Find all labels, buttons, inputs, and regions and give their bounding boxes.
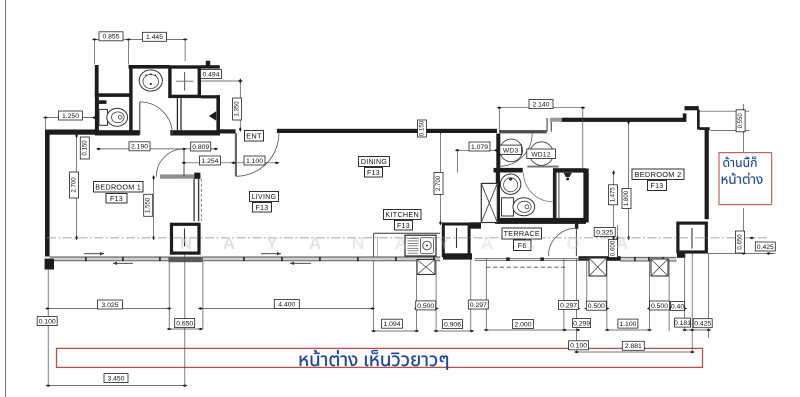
dimension 1.550 — [144, 194, 153, 216]
dim line 0.494 — [201, 80, 243, 83]
label TERRACE — [502, 228, 542, 239]
wall bath2 top right segment — [553, 168, 586, 172]
label WD3 — [500, 145, 522, 154]
dimension 0.325 — [594, 227, 615, 236]
wall closet bottom — [95, 93, 133, 97]
dimension 1.250 — [59, 111, 83, 120]
label BEDROOM2 F13 — [648, 181, 667, 191]
dim ext 0.855 left — [94, 41, 96, 65]
svg-text:2.190: 2.190 — [131, 144, 148, 151]
wall bedroom1 header end block — [194, 173, 200, 179]
dimension 1.475 — [609, 185, 618, 205]
wall closet left vertical — [95, 65, 99, 98]
terrace top-left corner wall — [470, 222, 481, 228]
svg-text:F13: F13 — [397, 223, 410, 230]
svg-text:3.450: 3.450 — [107, 376, 124, 383]
watermark letters — [180, 234, 628, 253]
kitchen sink unit — [405, 235, 436, 256]
svg-text:0.100: 0.100 — [570, 343, 587, 350]
door bedroom1 leaf — [183, 149, 185, 177]
slide arrow bedroom1 right — [84, 252, 104, 255]
door bath2 arc — [524, 173, 553, 202]
svg-text:WD3: WD3 — [503, 147, 519, 154]
wall bath2 left vertical — [496, 173, 500, 223]
dim line right 0.425 row — [708, 252, 776, 255]
wall tab below closet — [99, 100, 107, 104]
svg-text:2.700: 2.700 — [71, 177, 78, 193]
dimension 0.500 — [416, 301, 436, 310]
door entry arc — [236, 133, 279, 176]
wall bedroom1 top — [45, 130, 95, 135]
svg-text:0.150: 0.150 — [419, 120, 426, 136]
wall horizontal below 0.494 — [201, 95, 220, 98]
shower2 head symbol — [564, 173, 572, 181]
dim line 0.855/1.445 — [92, 38, 188, 41]
wall bedroom2 bottom solid — [579, 256, 621, 261]
svg-text:1.079: 1.079 — [471, 144, 488, 151]
wall bedroom1/living partition — [193, 179, 199, 221]
svg-text:0.500: 0.500 — [651, 303, 668, 310]
dim ext terrace c — [563, 259, 565, 331]
label BEDROOM 2 — [632, 169, 684, 180]
door bedroom1 arc — [156, 149, 184, 177]
dimension 1.100 — [618, 319, 638, 328]
dim ext bd2 b — [606, 261, 608, 331]
dimension 0.494 — [201, 70, 222, 79]
label KITCHEN F13 — [395, 221, 413, 231]
dim ext bd2 a — [586, 261, 588, 310]
dim line 1.350 vertical — [239, 78, 242, 132]
label BEDROOM1 F13 — [106, 194, 127, 204]
dimension 0.855 — [99, 32, 123, 41]
dim line 0.550 right — [699, 104, 750, 152]
dimension 0.297 — [559, 301, 579, 310]
dimension 4.400 — [274, 300, 299, 309]
window band bedroom1 — [50, 257, 169, 262]
door terrace arc — [548, 228, 576, 256]
dim ext terrace a — [470, 259, 472, 331]
svg-text:0.40: 0.40 — [671, 303, 684, 310]
dimension 0.181 — [674, 318, 691, 327]
svg-text:1.100: 1.100 — [246, 158, 263, 165]
svg-text:2.140: 2.140 — [532, 101, 549, 108]
wall WD hinge vertical — [496, 134, 500, 170]
dimension 0.650 — [736, 231, 745, 253]
dimension 0.809 — [191, 142, 211, 151]
thai text line1 right box — [723, 157, 756, 168]
dimension 0.425 — [755, 242, 775, 251]
svg-text:3.025: 3.025 — [101, 302, 118, 309]
appliance WD12 circle — [530, 142, 554, 166]
wall notch top — [685, 106, 699, 110]
svg-text:F13: F13 — [256, 205, 269, 212]
svg-text:2.000: 2.000 — [514, 321, 531, 328]
svg-text:1.800: 1.800 — [623, 190, 630, 206]
svg-text:N: N — [352, 234, 364, 253]
dimension 1.094 — [382, 319, 403, 328]
dim ext left wall — [47, 270, 49, 386]
svg-text:1.475: 1.475 — [610, 187, 617, 203]
slide arrow living left — [290, 262, 311, 265]
dimension 1.800 — [622, 189, 631, 209]
svg-text:N: N — [180, 234, 192, 253]
dim ext col3 a — [684, 253, 686, 331]
dimension 0.299 — [573, 319, 591, 328]
dimension 0.150 — [80, 137, 89, 159]
wall bath bottom left segment — [95, 130, 140, 135]
wall bath2 top left segment — [494, 168, 523, 173]
dimension 3.450 — [104, 374, 128, 383]
wash basin entry bath — [139, 70, 162, 91]
svg-text:0.906: 0.906 — [444, 322, 461, 329]
door entry leaf — [235, 133, 237, 176]
svg-text:1.445: 1.445 — [146, 34, 163, 41]
terrace edge line — [475, 257, 589, 261]
wall step connector A — [547, 118, 548, 132]
wall thin below shower line B — [180, 98, 181, 130]
svg-text:0.299: 0.299 — [573, 320, 590, 327]
dim ext col1 right — [202, 262, 204, 329]
label WD12 — [527, 149, 556, 159]
svg-text:Y: Y — [438, 234, 450, 253]
svg-text:0.809: 0.809 — [192, 144, 209, 151]
wall step connector B — [551, 118, 552, 132]
label BEDROOM 1 — [94, 182, 144, 193]
dim ext 0.906 — [435, 261, 437, 331]
window band living/kitchen — [203, 257, 440, 262]
svg-text:1.094: 1.094 — [383, 321, 400, 328]
wash basin bath2 — [500, 174, 520, 194]
centre line arrow right — [749, 237, 754, 240]
appliance WD3 circle — [500, 139, 523, 162]
door bath1 arc — [140, 102, 173, 135]
dim ext 1.094 — [416, 261, 418, 331]
wall upper top right — [562, 118, 685, 122]
dim line 2.140 — [497, 106, 586, 109]
dim ext kitchen left — [373, 261, 375, 331]
svg-text:0.100: 0.100 — [39, 319, 56, 326]
terrace dashed overhang — [486, 266, 565, 268]
dim line 1.079 — [455, 149, 499, 152]
dimension 1.254 — [200, 156, 221, 165]
wall bath2 right vertical — [583, 169, 588, 223]
red box bottom border — [57, 348, 703, 367]
dimension 0.100 — [569, 341, 589, 350]
door WD arc — [499, 133, 532, 166]
svg-text:F13: F13 — [367, 170, 380, 177]
wall WD header — [499, 130, 546, 133]
dim ext 1.250 left — [45, 118, 47, 130]
wall bath2 mid vertical — [553, 173, 557, 221]
dimension 3.025 — [98, 300, 123, 309]
svg-text:ENT: ENT — [246, 131, 262, 140]
dimension 0.100 — [37, 317, 57, 326]
dim line 1.800 vertical — [627, 119, 630, 240]
dim row D line 3.450 — [46, 384, 188, 387]
wall bedroom1 left vertical — [45, 130, 50, 257]
thai text line2 right box — [722, 173, 763, 184]
label LIVING — [250, 192, 279, 202]
svg-text:0.425: 0.425 — [694, 321, 711, 328]
dim line 1.475 vertical — [612, 170, 615, 240]
svg-text:1.350: 1.350 — [234, 101, 241, 117]
centre dash line — [47, 237, 769, 239]
wall notch vertical A — [683, 113, 687, 122]
svg-text:0.650: 0.650 — [176, 321, 193, 328]
dim ext 2.140 left — [498, 108, 500, 132]
post bedroom2 — [651, 259, 668, 276]
door swing triangle marker — [209, 111, 216, 120]
wall top right stub — [699, 127, 710, 130]
wall end block below bedroom1 — [45, 259, 54, 270]
dim row A line — [45, 307, 687, 310]
svg-text:0.855: 0.855 — [102, 34, 119, 41]
svg-text:0.325: 0.325 — [596, 229, 613, 236]
label DINING F13 — [365, 168, 383, 178]
dim ext col1 centre — [184, 255, 186, 386]
svg-text:BEDROOM 1: BEDROOM 1 — [95, 182, 141, 191]
dim line 0.600 vertical — [616, 235, 619, 260]
dimension 0.906 — [443, 320, 463, 329]
shower2 glass line A — [556, 173, 557, 219]
dimension 0.650 — [175, 319, 195, 328]
dimension 0.550 — [736, 110, 745, 132]
dim ext terrace b — [485, 259, 487, 331]
svg-text:0.650: 0.650 — [737, 234, 744, 250]
wall upper gray part — [550, 118, 562, 122]
wall toilet-room left vertical — [95, 98, 99, 136]
dimension 0.40 — [671, 302, 685, 311]
dim row C line 2.881 — [574, 351, 695, 354]
dimension 1.350 — [233, 98, 242, 120]
shaft hatched duct — [481, 183, 497, 222]
svg-text:O: O — [566, 234, 579, 253]
label DINING — [359, 157, 390, 167]
dim ext bd2 d — [668, 259, 670, 331]
dimension 0.500 — [650, 301, 670, 310]
dim line 1.250 — [43, 116, 97, 119]
svg-text:BEDROOM 2: BEDROOM 2 — [634, 170, 681, 179]
wall right vertical — [705, 129, 709, 219]
wall bath top (sink area) — [129, 65, 170, 69]
label KITCHEN — [384, 210, 422, 220]
red box right border — [719, 153, 772, 205]
svg-text:0.150: 0.150 — [81, 140, 88, 156]
svg-text:0.500: 0.500 — [588, 303, 605, 310]
column kitchen sill block — [443, 253, 472, 259]
svg-text:0.297: 0.297 — [560, 302, 577, 309]
svg-text:2.700: 2.700 — [435, 175, 442, 191]
svg-text:0.425: 0.425 — [757, 244, 774, 251]
column bedroom2 right — [678, 223, 706, 252]
door terrace stub — [575, 224, 578, 229]
svg-text:1.100: 1.100 — [619, 321, 636, 328]
svg-text:KITCHEN: KITCHEN — [385, 210, 419, 219]
shower stall with cross — [170, 67, 199, 96]
window band bedroom2 — [621, 257, 677, 262]
svg-text:0.181: 0.181 — [674, 320, 691, 327]
shelf line below WD12 — [527, 166, 558, 168]
shower2 glass line B — [558, 173, 559, 219]
label ENT — [245, 131, 264, 142]
svg-text:1.254: 1.254 — [201, 158, 218, 165]
dim line 2.190/0.809 — [96, 148, 218, 151]
frame left border line — [5, 0, 7, 397]
dim ext 2.881 left — [576, 259, 578, 352]
dim line 2.700 kitchen vertical — [439, 129, 442, 225]
post below kitchen — [417, 260, 435, 275]
dimension 1.445 — [143, 32, 167, 41]
dimension 2.000 — [513, 320, 534, 329]
dim ext right vertical lower — [743, 208, 745, 253]
dimension 0.425 — [693, 319, 712, 328]
dim ext col1 left — [168, 257, 170, 330]
dim ext 0.600 drop — [617, 225, 619, 238]
dim line 1.254/1.100 — [181, 162, 279, 165]
dim ext col3 centre — [691, 253, 693, 352]
wall living/dining top — [277, 129, 497, 133]
wall bedroom1 door header — [160, 174, 200, 178]
dimension 1.100 — [244, 156, 265, 165]
svg-text:A: A — [223, 234, 235, 253]
label LIVING F13 — [253, 203, 272, 213]
slide arrow living right — [261, 252, 281, 255]
wall tab above shower — [206, 61, 210, 67]
svg-text:0.494: 0.494 — [202, 71, 219, 78]
dim ext 1.079 drop — [456, 150, 458, 172]
dimension 2.140 — [529, 100, 553, 109]
wall thin below shower line A — [177, 98, 178, 130]
wall jog entry left — [220, 129, 236, 133]
wall bath bottom right segment — [170, 130, 220, 135]
svg-text:LIVING: LIVING — [252, 194, 277, 201]
svg-text:A: A — [395, 234, 407, 253]
toilet entry bath — [99, 108, 128, 126]
column3 bottom tab — [677, 253, 685, 257]
wall bath right vertical — [216, 95, 220, 135]
svg-text:A: A — [309, 234, 321, 253]
dimension 2.700 — [70, 172, 79, 198]
dimension 0.500 — [586, 301, 606, 310]
dimension 0.150 — [418, 120, 427, 137]
svg-text:WD12: WD12 — [531, 151, 551, 158]
dim ext 0.855 right — [128, 41, 130, 65]
label TERRACE F6 — [514, 240, 532, 251]
svg-text:F13: F13 — [651, 183, 664, 190]
svg-text:Y: Y — [266, 234, 278, 253]
wardrobe dashed line — [200, 179, 202, 221]
column living/bedroom1 — [172, 224, 200, 253]
dimension 2.700 — [434, 172, 443, 194]
dim ext 1.445 right — [184, 41, 186, 61]
svg-text:4.400: 4.400 — [278, 301, 295, 308]
post terrace right — [589, 258, 607, 276]
dimension 1.079 — [469, 142, 490, 151]
kitchen counter outline — [374, 233, 441, 257]
svg-text:1.550: 1.550 — [145, 197, 152, 213]
svg-text:0.297: 0.297 — [470, 302, 487, 309]
wall right of shower — [201, 65, 220, 68]
dim ext 0.425 — [708, 253, 710, 338]
svg-text:F13: F13 — [110, 196, 123, 203]
dimension 2.881 — [622, 341, 644, 350]
dimension 2.190 — [129, 142, 150, 151]
wall bath2 bottom — [495, 218, 586, 224]
svg-text:C: C — [524, 234, 536, 253]
dimension 0.297 — [468, 300, 488, 309]
door terrace leaf — [575, 229, 577, 257]
slide arrow bedroom1 left — [113, 262, 133, 265]
svg-text:0.550: 0.550 — [737, 113, 744, 129]
dim ext 2.140 right — [582, 108, 584, 170]
wall closet/bath divider vertical — [129, 65, 132, 134]
dimension 0.600 — [609, 240, 618, 258]
dim row B line — [167, 328, 712, 333]
dim line 1.550 vertical — [152, 175, 155, 240]
column kitchen/terrace — [443, 224, 469, 256]
svg-text:2.881: 2.881 — [625, 343, 642, 350]
window sill under column1 — [168, 257, 203, 263]
svg-text:DINING: DINING — [361, 159, 387, 166]
door bath1 leaf — [139, 102, 141, 135]
svg-text:0.500: 0.500 — [417, 303, 434, 310]
wall notch vertical B — [697, 110, 700, 130]
svg-text:A: A — [481, 234, 493, 253]
dim line 2.700 left vertical — [75, 133, 78, 240]
svg-text:A: A — [616, 234, 628, 253]
thai text bottom box — [300, 350, 448, 370]
dim ext bd2 c — [648, 259, 650, 331]
svg-text:1.250: 1.250 — [62, 113, 79, 120]
toilet bath2 — [502, 198, 535, 216]
